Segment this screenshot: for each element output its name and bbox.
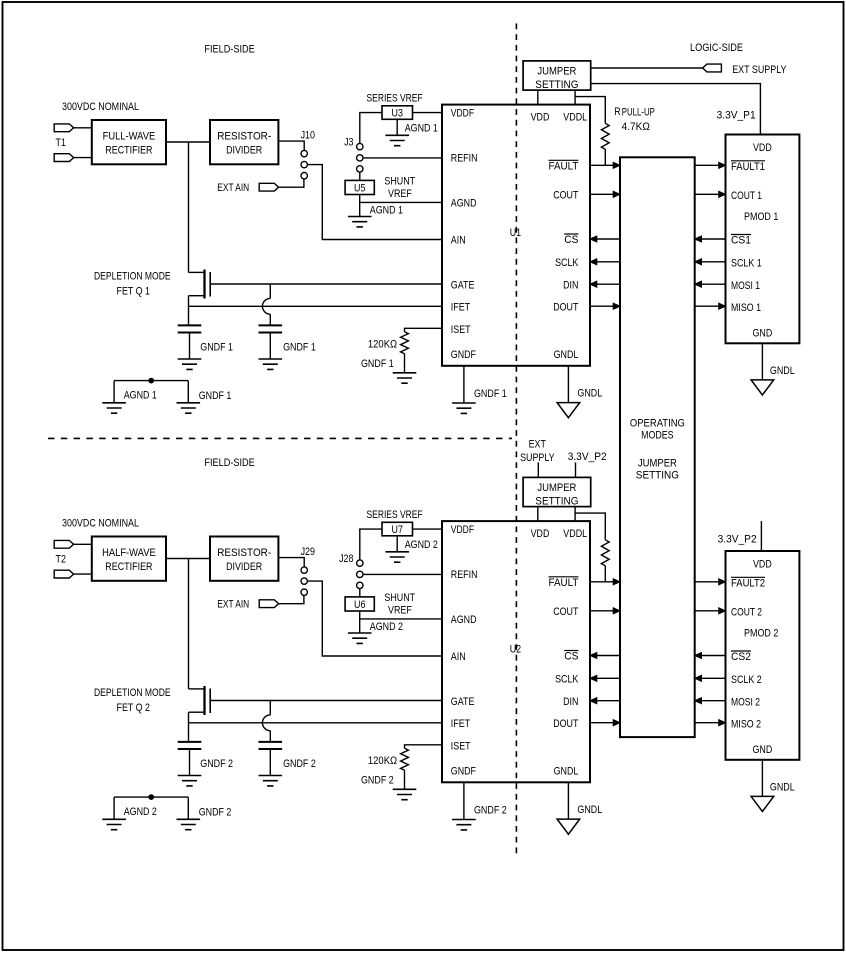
svg-text:DEPLETION MODE: DEPLETION MODE: [94, 687, 171, 699]
svg-text:IFET: IFET: [451, 718, 471, 730]
svg-text:FAULT2: FAULT2: [731, 578, 765, 590]
svg-text:RESISTOR-: RESISTOR-: [217, 547, 271, 559]
wire U7 to jumper J28 pin1: [360, 529, 382, 560]
svg-text:AGND 2: AGND 2: [124, 806, 157, 818]
wire jumper J10 pin2 to AIN: [308, 165, 442, 240]
jumper J10 pin 2: [301, 161, 307, 167]
capacitor C2a (source to GNDF2): [178, 742, 202, 749]
svg-text:VDDL: VDDL: [563, 528, 587, 540]
wire U1 DIN to operating-modes: [590, 283, 620, 285]
svg-text:J10: J10: [301, 130, 315, 142]
wire AGND2 to GNDF2 tie: [114, 796, 188, 798]
block FULL-WAVE RECTIFIER: [92, 120, 166, 164]
svg-text:GNDF 1: GNDF 1: [283, 342, 316, 354]
svg-text:300VDC NOMINAL: 300VDC NOMINAL: [62, 518, 139, 530]
wire U2 COUT to operating-modes: [590, 610, 620, 612]
svg-text:DEPLETION MODE: DEPLETION MODE: [94, 270, 171, 282]
wire ISET to 120K resistor: [405, 745, 443, 749]
wire resistor-divider to jumper J10: [278, 141, 304, 150]
wire T1 pin2 to rectifier: [74, 157, 92, 159]
resistor R pull-up 4.7K: [601, 540, 609, 566]
svg-text:JUMPER: JUMPER: [638, 458, 677, 470]
wire operating-modes to COUT1: [695, 193, 726, 195]
svg-text:DIVIDER: DIVIDER: [226, 145, 262, 157]
wire jumper J28 pin2 to REFIN: [363, 573, 442, 575]
svg-text:FET Q 2: FET Q 2: [117, 702, 151, 714]
ground AGND 2 (under U7): [385, 552, 409, 562]
wire operating-modes to SCLK2: [695, 677, 726, 679]
ground AGND 1 (under U5): [348, 217, 372, 227]
resistor 120KΩ (ISET): [401, 748, 409, 770]
svg-text:U2: U2: [510, 644, 521, 656]
svg-text:SCLK 1: SCLK 1: [731, 258, 762, 270]
svg-text:T2: T2: [56, 553, 66, 565]
wire operating-modes to FAULT2: [695, 581, 726, 583]
svg-text:U6: U6: [354, 599, 365, 611]
wire U7 to AGND2: [396, 536, 398, 552]
svg-text:AIN: AIN: [451, 651, 466, 663]
wire PMOD 2 GND to GNDL: [761, 760, 763, 797]
wire node to FET drain: [188, 142, 190, 272]
ground GNDF 2 (tie): [177, 819, 201, 829]
svg-text:GNDF 2: GNDF 2: [200, 758, 233, 770]
svg-text:CS: CS: [564, 234, 578, 246]
svg-text:COUT 2: COUT 2: [731, 607, 762, 619]
IC U1 isolated current-sense amplifier: [442, 105, 590, 366]
svg-text:GNDL: GNDL: [577, 387, 602, 399]
connector EXT AIN: [259, 183, 278, 191]
jumper J3 pin 3: [357, 166, 363, 172]
svg-text:SERIES VREF: SERIES VREF: [367, 92, 423, 104]
svg-text:U1: U1: [510, 227, 521, 239]
wire operating-modes to COUT2: [695, 610, 726, 612]
transistor Q2 depletion-mode FET: [203, 686, 205, 715]
svg-text:3.3V_P2: 3.3V_P2: [568, 451, 607, 463]
svg-text:U3: U3: [392, 108, 403, 120]
svg-text:COUT 1: COUT 1: [731, 190, 762, 202]
svg-text:SCLK 2: SCLK 2: [731, 674, 762, 686]
block JUMPER SETTING: [523, 61, 591, 90]
wire ISET to 120K resistor: [405, 328, 443, 332]
wire Q1 source to IFET pin: [189, 305, 443, 307]
wire U3 to AGND1: [396, 119, 398, 135]
ground GNDF 2 (under C2b): [259, 776, 283, 786]
wire operating-modes to MISO2: [695, 722, 726, 724]
svg-text:AGND 2: AGND 2: [370, 621, 403, 633]
svg-text:GNDF 1: GNDF 1: [199, 390, 232, 402]
wire operating-modes to MOSI2: [695, 700, 726, 702]
wire GNDL pin to ground: [567, 782, 569, 819]
jumper J28 pin 1: [357, 560, 363, 566]
jumper J10 pin 1: [301, 150, 307, 156]
svg-text:AGND: AGND: [451, 614, 477, 626]
svg-text:DIN: DIN: [563, 279, 578, 291]
block RESISTOR-DIVIDER: [210, 120, 278, 164]
jumper J29 pin 3: [301, 589, 307, 595]
svg-text:OPERATING: OPERATING: [630, 418, 685, 430]
ground GNDF 1 (tie): [177, 403, 201, 413]
svg-text:AGND 1: AGND 1: [124, 390, 157, 402]
svg-text:EXT AIN: EXT AIN: [217, 182, 249, 194]
svg-text:300VDC NOMINAL: 300VDC NOMINAL: [62, 101, 139, 113]
svg-text:MODES: MODES: [641, 430, 674, 442]
svg-text:COUT: COUT: [553, 190, 578, 202]
svg-text:GNDF 2: GNDF 2: [361, 775, 394, 787]
wire U7 to VDDF: [413, 528, 443, 530]
wire Q2 source to IFET pin: [189, 722, 443, 724]
wire jumper J3 pin2 to REFIN: [363, 157, 442, 159]
wire GNDF pin to ground: [463, 782, 465, 819]
svg-text:CS1: CS1: [731, 235, 751, 247]
svg-text:CS: CS: [564, 651, 578, 663]
svg-text:GNDL: GNDL: [770, 782, 795, 794]
svg-text:PMOD 2: PMOD 2: [744, 628, 778, 640]
wire resistor to GNDF: [404, 770, 406, 789]
separator field/logic dashed line: [515, 24, 517, 857]
voltage reference U3 (series VREF): [382, 106, 413, 120]
connector T1 pin 1: [54, 124, 73, 132]
svg-text:AIN: AIN: [451, 235, 466, 247]
svg-text:GNDF 1: GNDF 1: [200, 342, 233, 354]
svg-text:DOUT: DOUT: [553, 301, 578, 313]
svg-text:SHUNT: SHUNT: [384, 592, 415, 604]
wire U3 to VDDF: [413, 112, 443, 114]
wire EXT AIN to jumper J29 pin3: [279, 596, 304, 604]
svg-text:VDD: VDD: [531, 528, 550, 540]
wire U2 FAULT to operating-modes: [590, 581, 620, 583]
wire U2 DIN to operating-modes: [590, 700, 620, 702]
ground GNDF 1 (under 120K): [393, 373, 417, 383]
wire resistor to GNDF: [404, 354, 406, 373]
wire Q1 gate to GATE pin: [210, 283, 442, 285]
connector EXT AIN: [259, 600, 278, 608]
wire U2 DOUT to operating-modes: [590, 722, 620, 724]
svg-text:HALF-WAVE: HALF-WAVE: [102, 547, 156, 559]
wire jumper-setting to VDDL and pull-up: [574, 507, 576, 521]
wire node to FET drain: [188, 559, 190, 689]
svg-text:3.3V_P2: 3.3V_P2: [718, 534, 757, 546]
jumper J10 pin 3: [301, 173, 307, 179]
wire PMOD 1 GND to GNDL: [761, 343, 763, 380]
svg-text:U5: U5: [354, 182, 365, 194]
connector T1 pin 2: [54, 154, 73, 162]
wire U2 CS to operating-modes: [590, 655, 620, 657]
wire pull-up to FAULT net: [604, 566, 606, 582]
svg-text:SUPPLY: SUPPLY: [520, 452, 555, 464]
svg-text:FULL-WAVE: FULL-WAVE: [103, 131, 156, 143]
svg-text:GATE: GATE: [451, 696, 475, 708]
svg-text:IFET: IFET: [451, 301, 471, 313]
svg-text:CS2: CS2: [731, 651, 751, 663]
svg-text:ISET: ISET: [451, 324, 471, 336]
svg-text:DIVIDER: DIVIDER: [226, 561, 262, 573]
block OPERATING MODES JUMPER SETTING: [620, 157, 695, 737]
wire EXT SUPPLY to jumper-setting: [537, 462, 539, 477]
wire EXT AIN to jumper J10 pin3: [279, 179, 304, 187]
transistor Q1 depletion-mode FET: [203, 270, 205, 299]
svg-text:SCLK: SCLK: [555, 257, 579, 269]
wire jumper J3 pin3 to U5: [359, 172, 361, 180]
ground GNDF 1 (under C1b): [259, 359, 283, 369]
svg-text:GATE: GATE: [451, 279, 475, 291]
svg-text:120KΩ: 120KΩ: [368, 755, 397, 767]
separator channel1/channel2 dashed line: [48, 437, 512, 439]
wire U1 COUT to operating-modes: [590, 193, 620, 195]
block RESISTOR-DIVIDER: [210, 537, 278, 581]
jumper J3 pin 2: [357, 155, 363, 161]
wire jumper J29 pin2 to AIN: [308, 581, 442, 656]
svg-text:120KΩ: 120KΩ: [368, 339, 397, 351]
svg-text:MOSI 1: MOSI 1: [731, 280, 760, 292]
svg-text:U7: U7: [392, 524, 403, 536]
svg-text:J29: J29: [301, 546, 315, 558]
svg-text:JUMPER: JUMPER: [537, 66, 576, 78]
wire AGND1 to GNDF1 tie: [114, 380, 188, 382]
connector EXT SUPPLY: [703, 64, 722, 72]
svg-text:COUT: COUT: [553, 606, 578, 618]
wire GNDL pin to ground: [567, 366, 569, 403]
wire gate branch with hop over IFET: [269, 701, 271, 715]
svg-text:AGND 1: AGND 1: [370, 204, 403, 216]
svg-text:RESISTOR-: RESISTOR-: [217, 131, 271, 143]
voltage reference U5 (shunt VREF): [345, 180, 374, 194]
svg-text:GNDF 2: GNDF 2: [283, 758, 316, 770]
wire gate branch with hop over IFET: [269, 284, 271, 298]
wire U6 to AGND pin: [359, 611, 361, 633]
wire U1 SCLK to operating-modes: [590, 261, 620, 263]
wire operating-modes to CS2: [695, 655, 726, 657]
svg-text:FIELD-SIDE: FIELD-SIDE: [204, 44, 254, 56]
ground GNDL (under U1): [557, 403, 580, 418]
svg-text:VDD: VDD: [753, 142, 772, 154]
wire operating-modes to MOSI1: [695, 283, 726, 285]
svg-text:SETTING: SETTING: [535, 496, 578, 508]
svg-text:J28: J28: [339, 553, 353, 565]
capacitor C2b (gate to GNDF2): [259, 742, 283, 749]
wire jumper-setting to EXT SUPPLY: [591, 67, 703, 69]
svg-text:GNDF 1: GNDF 1: [474, 388, 507, 400]
ground AGND 1 (tie): [102, 403, 126, 413]
svg-text:MISO 2: MISO 2: [731, 718, 761, 730]
svg-text:FET Q 1: FET Q 1: [117, 285, 151, 297]
wire T2 pin2 to rectifier: [74, 573, 92, 575]
svg-text:GNDF 1: GNDF 1: [361, 358, 394, 370]
svg-text:EXT: EXT: [529, 438, 547, 450]
wire U2 SCLK to operating-modes: [590, 677, 620, 679]
svg-text:REFIN: REFIN: [451, 153, 478, 165]
svg-text:GNDF: GNDF: [451, 766, 476, 778]
svg-text:EXT SUPPLY: EXT SUPPLY: [732, 64, 787, 76]
connector PMOD 2: [726, 551, 800, 760]
wire 3.3V_P2 to jumper-setting: [575, 462, 577, 477]
svg-text:J3: J3: [344, 136, 353, 148]
ground GNDF 2 (under 120K): [393, 789, 417, 799]
ground GNDL (under PMOD 1): [751, 380, 774, 395]
svg-text:GNDF: GNDF: [451, 349, 476, 361]
svg-text:PMOD 1: PMOD 1: [744, 211, 778, 223]
svg-text:3.3V_P1: 3.3V_P1: [717, 109, 756, 121]
svg-text:GND: GND: [753, 744, 773, 756]
svg-text:GNDL: GNDL: [554, 349, 579, 361]
wire GNDF pin to ground: [463, 366, 465, 403]
ground GNDL (under U2): [557, 819, 580, 834]
svg-text:SCLK: SCLK: [555, 674, 579, 686]
svg-text:ISET: ISET: [451, 741, 471, 753]
wire U1 CS to operating-modes: [590, 238, 620, 240]
svg-text:REFIN: REFIN: [451, 569, 478, 581]
wire operating-modes to SCLK1: [695, 261, 726, 263]
wire pull-up to FAULT net: [604, 149, 606, 165]
svg-text:SETTING: SETTING: [636, 470, 679, 482]
ground GNDF 1 (under C1a): [178, 359, 202, 369]
wire rectifier to resistor-divider: [166, 558, 210, 560]
connector T2 pin 2: [54, 570, 73, 578]
ground AGND 2 (under U6): [348, 633, 372, 643]
svg-text:GNDL: GNDL: [770, 365, 795, 377]
svg-text:R: R: [614, 106, 620, 118]
svg-text:RECTIFIER: RECTIFIER: [105, 561, 152, 573]
jumper J28 pin 3: [357, 582, 363, 588]
ground AGND 2 (tie): [102, 819, 126, 829]
wire jumper-setting to VDD: [537, 507, 539, 521]
wire T1 pin1 to rectifier: [74, 127, 92, 129]
svg-text:VREF: VREF: [388, 188, 412, 200]
voltage reference U6 (shunt VREF): [345, 597, 374, 611]
wire jumper-setting to VDDL and pull-up: [574, 90, 576, 105]
IC U2 isolated current-sense amplifier: [442, 521, 590, 782]
wire 3.3V_P2 stub to PMOD2 VDD: [760, 521, 762, 551]
svg-text:MOSI 2: MOSI 2: [731, 696, 760, 708]
wire U1 FAULT to operating-modes: [590, 164, 620, 166]
svg-text:JUMPER: JUMPER: [537, 482, 576, 494]
jumper J29 pin 1: [301, 567, 307, 573]
svg-text:SHUNT: SHUNT: [384, 176, 415, 188]
svg-text:VDDF: VDDF: [451, 524, 475, 536]
svg-text:GND: GND: [753, 327, 773, 339]
ground GNDF 2 (under C2a): [178, 776, 202, 786]
svg-text:VREF: VREF: [388, 604, 412, 616]
svg-text:MISO 1: MISO 1: [731, 302, 761, 314]
svg-text:GNDF 2: GNDF 2: [199, 806, 232, 818]
junction dot on tie: [149, 378, 154, 383]
wire operating-modes to MISO1: [695, 305, 726, 307]
connector PMOD 1: [726, 135, 800, 344]
wire jumper-setting to VDD: [537, 90, 539, 105]
svg-text:RECTIFIER: RECTIFIER: [105, 145, 152, 157]
svg-text:FAULT: FAULT: [549, 161, 579, 173]
resistor 120KΩ (ISET): [401, 332, 409, 354]
svg-text:4.7KΩ: 4.7KΩ: [622, 121, 650, 133]
junction dot on tie: [149, 795, 154, 800]
ground AGND 1 (under U3): [385, 135, 409, 145]
block HALF-WAVE RECTIFIER: [92, 537, 166, 581]
svg-text:SERIES VREF: SERIES VREF: [367, 509, 423, 521]
wire jumper J28 pin3 to U6: [359, 589, 361, 597]
jumper J28 pin 2: [357, 571, 363, 577]
svg-text:SETTING: SETTING: [535, 79, 578, 91]
jumper J3 pin 1: [357, 143, 363, 149]
svg-text:DOUT: DOUT: [553, 718, 578, 730]
svg-text:GNDL: GNDL: [577, 804, 602, 816]
svg-text:DIN: DIN: [563, 696, 578, 708]
svg-text:EXT AIN: EXT AIN: [217, 598, 249, 610]
svg-text:GNDF 2: GNDF 2: [474, 804, 507, 816]
svg-text:FAULT: FAULT: [549, 577, 579, 589]
svg-text:AGND: AGND: [451, 197, 477, 209]
resistor R pull-up 4.7K: [601, 123, 609, 149]
svg-text:LOGIC-SIDE: LOGIC-SIDE: [690, 42, 743, 54]
wire U5 to AGND pin: [359, 195, 361, 217]
voltage reference U7 (series VREF): [382, 522, 413, 536]
ground GNDF 1 (under U1): [452, 403, 476, 413]
jumper J29 pin 2: [301, 578, 307, 584]
svg-text:VDDF: VDDF: [451, 108, 475, 120]
svg-text:PULL-UP: PULL-UP: [622, 107, 655, 119]
svg-text:FIELD-SIDE: FIELD-SIDE: [204, 457, 254, 469]
wire Q2 gate to GATE pin: [210, 700, 442, 702]
svg-text:VDD: VDD: [531, 111, 550, 123]
wire resistor-divider to jumper J29: [278, 558, 304, 567]
svg-text:AGND 1: AGND 1: [405, 123, 438, 135]
block JUMPER SETTING: [523, 477, 591, 506]
connector T2 pin 1: [54, 540, 73, 548]
svg-text:GNDL: GNDL: [554, 766, 579, 778]
svg-text:VDDL: VDDL: [563, 111, 587, 123]
wire operating-modes to FAULT1: [695, 164, 726, 166]
wire rectifier to resistor-divider: [166, 141, 210, 143]
wire T2 pin1 to rectifier: [74, 543, 92, 545]
wire operating-modes to CS1: [695, 238, 726, 240]
wire jumper-setting to PMOD1 VDD (3.3V_P1): [591, 84, 761, 135]
capacitor C1a (source to GNDF1): [178, 325, 202, 332]
wire U1 DOUT to operating-modes: [590, 305, 620, 307]
svg-text:VDD: VDD: [753, 559, 772, 571]
ground GNDF 2 (under U2): [452, 820, 476, 830]
wire U3 to jumper J3 pin1: [360, 113, 382, 144]
ground GNDL (under PMOD 2): [751, 796, 774, 811]
svg-text:AGND 2: AGND 2: [405, 539, 438, 551]
capacitor C1b (gate to GNDF1): [259, 325, 283, 332]
svg-text:FAULT1: FAULT1: [731, 161, 765, 173]
svg-text:T1: T1: [56, 137, 66, 149]
